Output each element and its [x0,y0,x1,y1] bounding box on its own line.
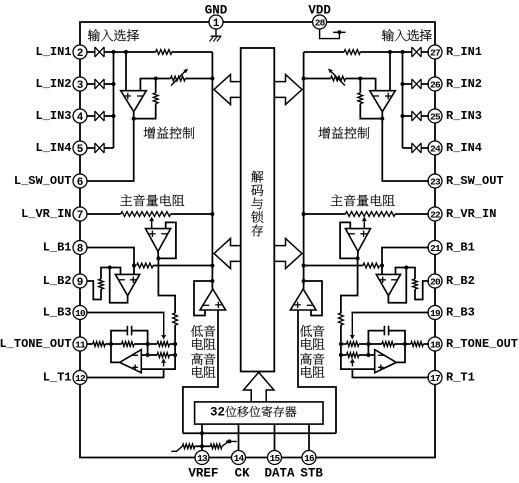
wire TONE_OUT R [423,343,429,345]
wire + input B2 L [133,266,135,275]
wire switch to bus R1 [403,51,412,53]
arrow treble wiper L [163,363,165,367]
plus gain R [385,93,391,99]
junction tone cap right R [366,342,370,346]
junction bus var R [302,77,306,81]
minus gain L [137,95,143,97]
bus R [303,52,305,289]
svg-text:L_SW_OUT: L_SW_OUT [14,174,72,188]
junction volume out L [156,256,160,260]
arrow treble wiper R [351,363,353,367]
plus B2 L [130,277,136,283]
op-amp gain R [370,91,396,112]
label 输入选择 R [382,29,394,41]
node B2 R [404,266,408,270]
pin 1 GND [209,15,223,29]
plus bass R [294,302,300,308]
wire shiftreg to pin14 [238,424,240,450]
wire tone out L [111,344,120,362]
resistor B1 R [363,263,379,268]
feedback resistor gain R [359,79,361,93]
up arrow to decode block [244,372,274,402]
pin 6 L_SW_OUT [73,174,87,188]
wire tone 1 R [405,343,411,345]
op-amp volume L [146,229,171,252]
junction gain out R [380,117,384,121]
wiper arrow volume R [363,221,365,229]
svg-text:R_B2: R_B2 [446,274,475,288]
resistor input R [344,50,360,55]
wire gain out to SW_OUT L [87,112,134,181]
wire resistor bass L [174,325,176,344]
wire treble minus L [141,354,147,356]
wire switch to bus L1 [104,51,113,53]
wire T1 R [352,369,429,377]
wire row to resistor L [114,51,156,53]
wire vref rail [183,432,336,434]
node fb gain L [154,77,158,81]
wire resistor to bus L [172,51,213,53]
wire treble drop L [147,344,149,355]
wire pin to switch R2 [421,83,429,85]
feedback bass R [304,281,322,316]
resistor B2 L [101,268,110,280]
bus arrow left upper [214,75,241,105]
input select bus L [113,52,115,148]
pin 22 R_VR_IN [428,207,442,221]
minus B2 R [391,279,397,281]
svg-text:12: 12 [75,373,86,384]
op-amp tone L [120,350,142,373]
wire switch to bus R4 [403,147,412,149]
op-amp volume R [345,229,370,252]
wire pin to switch L2 [87,83,95,85]
wire tone 5 R [341,343,347,345]
treble resistor L [148,354,158,356]
svg-text:R_B3: R_B3 [446,306,475,320]
bus arrow right upper [274,75,302,105]
analog switch R_IN2 [412,79,421,89]
svg-text:R_IN1: R_IN1 [446,45,482,59]
svg-text:R_T1: R_T1 [446,371,475,385]
minus tone L [132,354,138,356]
wire VR_IN R [395,213,429,215]
analog switch R_IN1 [412,47,421,57]
pin 7 L_VR_IN [73,207,87,221]
feedback resistor gain L [155,79,157,93]
minus volume R [348,233,354,235]
label 输入选择 L [88,29,100,41]
wire treble minus R [368,354,374,356]
wire row to resistor R [360,51,402,53]
op-amp gain L [121,91,147,112]
wire volume out L [158,252,175,314]
wire - to node R [360,79,375,91]
wire tone 2 R [394,343,405,345]
junction vref [200,431,204,435]
wire + tone L [141,368,163,370]
minus bass L [203,304,209,306]
junction treble left R [366,353,370,357]
wire tone 5 L [170,343,176,345]
pin 19 R_B3 [428,306,442,320]
pin 26 R_IN2 [428,77,442,91]
wire pin to switch R3 [421,115,429,117]
arrow var resistor L [171,72,185,86]
feedback bass L [194,281,212,316]
resistor vref left [171,446,182,451]
minus gain R [373,95,379,97]
wire var resistor L [156,78,171,80]
wire B1 R [382,248,429,266]
resistor vref right [202,445,210,447]
wire pin to switch L4 [87,147,95,149]
svg-text:CK: CK [235,467,251,481]
svg-text:22: 22 [430,209,441,220]
svg-text:21: 21 [430,243,441,254]
svg-text:R_B1: R_B1 [446,241,475,255]
svg-text:24: 24 [430,143,441,154]
bus L [211,52,213,289]
op-amp tone R [375,350,397,373]
wire tone 4 R [359,343,369,345]
minus volume L [161,233,167,235]
resistor B2 R [406,268,415,280]
decode-latch text 解码与锁存 [251,171,263,183]
wire shiftreg to pin15 [274,424,276,450]
wire vref right drop [298,310,336,433]
wire gain out to SW_OUT R [382,112,429,181]
svg-text:1: 1 [213,18,220,30]
analog switch L_IN2 [95,79,104,89]
label 增益控制 R [319,127,331,139]
junction tone cap right L [146,342,150,346]
analog switch L_IN1 [95,47,104,57]
svg-text:R_SW_OUT: R_SW_OUT [446,174,504,188]
wire switch to bus L3 [104,115,113,117]
label 低音电阻 L [191,325,203,337]
plus volume L [149,231,155,237]
wire + input B2 R [381,266,383,275]
svg-text:L_IN2: L_IN2 [35,77,71,91]
wire tone 1 L [105,343,111,345]
svg-text:VREF: VREF [188,467,218,481]
svg-text:14: 14 [234,453,245,464]
junction treble right R [339,353,343,357]
wire switch to bus R3 [403,115,412,117]
analog switch R_IN3 [412,111,421,121]
svg-text:L_T1: L_T1 [43,371,72,385]
resistor tone out L [93,342,106,347]
plus B2 R [380,277,386,283]
decode-latch block [241,48,275,372]
op-amp B2 R [376,274,400,295]
svg-text:23: 23 [430,176,441,187]
treble resistor R [359,354,369,356]
node B2 L [108,266,112,270]
wire tone 2 L [111,343,122,345]
plus tone R [378,365,384,371]
wire tone out R [396,344,405,362]
volume label 主音量电阻 L [120,195,132,206]
arrow var resistor R [331,72,345,86]
wire switch to bus L4 [104,147,113,149]
resistor B1 L [137,263,153,268]
wire volume out R [341,252,358,314]
capacitor tone R [389,331,405,344]
svg-text:GND: GND [205,4,228,18]
analog switch L_IN4 [95,143,104,153]
wire shiftreg to pin16 [308,424,310,450]
pin 14 CK [232,451,246,465]
minus bass R [307,304,313,306]
junction switch bus R2 [401,82,405,86]
svg-text:19: 19 [430,308,441,319]
svg-text:6: 6 [77,177,84,189]
wire pin to switch L3 [87,115,95,117]
wire TONE_OUT L [87,343,93,345]
wire pin to switch R1 [421,51,429,53]
svg-text:STB: STB [300,467,323,481]
junction switch bus L3 [112,114,116,118]
plus gain L [125,93,131,99]
junction volume out R [356,256,360,260]
wire treble right down R [341,355,353,369]
ground symbol [211,29,222,36]
pin 21 R_B1 [428,241,442,255]
resistor to bass row L [173,313,178,325]
junction bass out L [210,279,214,283]
wire resistor to bus R [304,51,345,53]
input select bus R [402,52,404,148]
label 增益控制 L [144,127,156,139]
wire T1 L [87,369,164,377]
analog switch L_IN3 [95,111,104,121]
arrow B3 wiper R [351,313,353,335]
pin 17 R_T1 [428,371,442,385]
node L input [124,50,128,54]
svg-text:L_B2: L_B2 [43,274,72,288]
junction B1 L [132,264,136,268]
wire volume to bus R [304,213,346,215]
svg-text:3: 3 [77,80,84,92]
wire shiftreg to pin13 [201,424,203,450]
resistor to bass row R [339,313,344,325]
pin 3 L_IN2 [73,77,87,91]
minus B2 L [119,279,125,281]
wire switch to bus R2 [403,83,412,85]
wire var resistor to bus L [185,78,212,80]
junction bass right R [339,342,343,346]
junction gain out L [132,117,136,121]
svg-text:11: 11 [75,339,86,350]
wire resistor bass R [340,325,342,344]
wire bus to bass row R [340,344,342,355]
plus tone L [132,365,138,371]
svg-text:27: 27 [430,47,441,58]
junction bus volume R [302,212,306,216]
pin 9 L_B2 [73,274,87,288]
wire B1 to bus R [304,265,363,267]
pin 18 R_TONE_OUT [428,337,442,351]
wire tone 3 R [368,343,382,345]
wire var resistor R [346,78,361,80]
pin 10 L_B3 [73,306,87,320]
bass resistor R [347,342,359,347]
wire treble right down L [164,355,176,369]
junction switch bus L1 [112,50,116,54]
pin 23 R_SW_OUT [428,174,442,188]
junction bus volume L [210,212,214,216]
node fb gain R [358,77,362,81]
volume resistor R [345,212,395,217]
resistor tone mid R [382,342,395,347]
svg-text:17: 17 [430,373,441,384]
variable resistor gain R [331,76,346,81]
wire + input gain R [389,52,391,91]
shift register block [195,402,323,424]
op-amp bass R [290,289,316,310]
wire - B2 L [110,268,121,275]
volume label 主音量电阻 R [331,195,343,206]
feedback volume R [340,222,358,258]
svg-text:L_B1: L_B1 [43,241,72,255]
capacitor tone L [111,331,127,344]
svg-text:DATA: DATA [264,467,295,481]
wire treble drop R [367,344,369,355]
junction bus B1 L [210,264,214,268]
pin 24 R_IN4 [428,141,442,155]
pin 25 R_IN3 [428,109,442,123]
wire - B2 R [396,268,407,275]
variable resistor gain L [171,76,186,81]
svg-text:L_VR_IN: L_VR_IN [21,207,71,221]
pin 8 L_B1 [73,241,87,255]
resistor tone out R [411,342,424,347]
resistor input L [156,50,172,55]
analog switch R_IN4 [412,143,421,153]
svg-text:25: 25 [430,111,441,122]
plus bass L [215,302,221,308]
wire B1 to bus L [153,265,212,267]
svg-text:L_IN1: L_IN1 [35,45,71,59]
node R input [388,50,392,54]
junction B1 R [380,264,384,268]
pin 2 L_IN1 [73,45,87,59]
pin 4 L_IN3 [73,109,87,123]
svg-text:15: 15 [270,453,281,464]
pin 16 STB [302,451,316,465]
wire B3 L [87,312,164,315]
svg-text:R_TONE_OUT: R_TONE_OUT [446,337,518,351]
feedback volume L [158,222,176,258]
svg-text:28: 28 [315,17,326,28]
feedback B2 L [110,268,128,303]
junction bass right L [173,342,177,346]
wire VR_IN L [87,213,121,215]
svg-text:2: 2 [77,48,84,60]
svg-text:5: 5 [77,144,84,156]
pin 15 DATA [268,451,282,465]
bus arrow left lower [214,239,241,269]
minus tone R [378,354,384,356]
wire B1 L [87,248,134,266]
wire var resistor to bus R [304,78,331,80]
wire pin to switch L1 [87,51,95,53]
junction treble right L [173,353,177,357]
junction switch bus R1 [401,50,405,54]
junction bass out R [302,279,306,283]
svg-text:13: 13 [197,453,208,464]
volume resistor L [121,212,171,217]
svg-text:26: 26 [430,79,441,90]
pin 27 R_IN1 [428,45,442,59]
svg-text:R_VR_IN: R_VR_IN [446,207,496,221]
pin 20 R_B2 [428,274,442,288]
pin 28 VDD [313,15,327,29]
svg-text:16: 16 [304,453,315,464]
wire + input gain L [125,52,127,91]
svg-text:L_IN4: L_IN4 [35,141,71,155]
op-amp B2 L [115,274,139,295]
junction tone cap left R [403,342,407,346]
label 高音电阻 R [300,353,312,365]
svg-text:L_TONE_OUT: L_TONE_OUT [0,337,72,351]
svg-text:L_IN3: L_IN3 [35,109,71,123]
label 低音电阻 R [300,325,312,337]
wire - to node L [140,79,155,91]
pin 13 VREF [195,451,209,465]
wire tone 4 L [148,343,158,345]
svg-text:R_IN2: R_IN2 [446,77,482,91]
junction bus B1 R [302,264,306,268]
feedback B2 R [388,268,406,303]
op-amp bass L [200,289,226,310]
wire volume to bus L [171,213,213,215]
svg-text:32: 32 [210,406,225,420]
plus volume R [360,231,366,237]
svg-text:20: 20 [430,276,441,287]
wire B3 R [352,312,429,315]
svg-text:VDD: VDD [308,4,331,18]
wire tone 3 L [134,343,148,345]
svg-text:9: 9 [77,277,84,289]
wire switch to bus L2 [104,83,113,85]
junction switch bus R3 [401,114,405,118]
pin 5 L_IN4 [73,141,87,155]
junction vref resistor [200,444,204,448]
junction tone cap left L [109,342,113,346]
bass resistor L [157,342,169,347]
svg-text:8: 8 [77,243,84,255]
wire pin to switch R4 [421,147,429,149]
junction switch bus L2 [112,82,116,86]
svg-text:10: 10 [75,308,86,319]
resistor tone mid L [122,342,135,347]
chip outline frame [80,22,435,458]
wire + bass to vref L [183,310,218,433]
wiper arrow volume L [151,221,153,229]
svg-text:R_IN3: R_IN3 [446,109,482,123]
wire bus to bass row L [174,344,176,355]
svg-text:4: 4 [77,112,84,124]
junction bus var L [210,77,214,81]
label 高音电阻 L [191,353,203,365]
svg-text:R_IN4: R_IN4 [446,141,482,155]
svg-text:L_B3: L_B3 [43,306,72,320]
svg-text:18: 18 [430,339,441,350]
svg-text:7: 7 [77,210,84,222]
